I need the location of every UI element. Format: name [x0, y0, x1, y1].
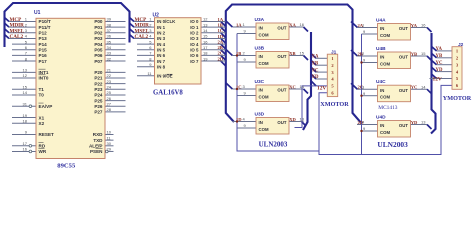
svg-text:COM: COM	[380, 130, 390, 135]
svg-text:IN 2: IN 2	[157, 31, 166, 36]
svg-text:12: 12	[23, 73, 28, 78]
svg-text:IN: IN	[259, 120, 263, 125]
svg-text:33: 33	[107, 51, 112, 56]
svg-text:PSEN: PSEN	[90, 149, 103, 154]
svg-text:XC: XC	[312, 68, 319, 73]
svg-text:U3A: U3A	[255, 17, 265, 23]
svg-text:CAL2: CAL2	[10, 34, 24, 40]
svg-text:23: 23	[107, 79, 112, 84]
svg-text:P26: P26	[94, 104, 103, 109]
svg-text:P23: P23	[94, 87, 103, 92]
svg-text:IO 5: IO 5	[190, 47, 199, 52]
svg-text:COM: COM	[380, 61, 390, 66]
svg-text:13: 13	[421, 120, 426, 125]
svg-text:YD: YD	[411, 120, 418, 125]
svg-text:RESET: RESET	[39, 132, 55, 137]
svg-text:IO 6: IO 6	[190, 53, 199, 58]
svg-text:P13: P13	[39, 36, 48, 41]
svg-text:TXD: TXD	[93, 138, 103, 143]
svg-text:XD: XD	[289, 117, 296, 122]
svg-text:17: 17	[23, 141, 28, 146]
svg-text:1D: 1D	[218, 34, 224, 39]
svg-text:OUT: OUT	[277, 54, 286, 59]
svg-text:YC: YC	[436, 61, 443, 66]
svg-text:WR: WR	[39, 149, 47, 154]
svg-text:U3C: U3C	[255, 79, 265, 85]
svg-text:19: 19	[203, 56, 208, 61]
svg-text:16: 16	[300, 22, 305, 27]
svg-text:31: 31	[23, 101, 28, 106]
svg-text:1C: 1C	[218, 28, 224, 33]
svg-text:2C: 2C	[218, 51, 224, 56]
svg-text:YC: YC	[411, 85, 418, 90]
svg-text:INT1: INT1	[39, 70, 49, 75]
svg-text:YD: YD	[436, 68, 443, 73]
svg-text:IN: IN	[259, 26, 263, 31]
svg-text:1B: 1B	[236, 51, 241, 56]
svg-text:RXD: RXD	[93, 132, 103, 137]
svg-text:IO 3: IO 3	[190, 36, 199, 41]
svg-text:P04: P04	[94, 42, 103, 47]
svg-text:22: 22	[107, 73, 112, 78]
svg-text:16: 16	[421, 23, 426, 28]
svg-text:13: 13	[300, 117, 305, 122]
svg-text:18: 18	[23, 118, 28, 123]
svg-text:YB: YB	[436, 54, 443, 59]
svg-text:IN 8: IN 8	[157, 64, 166, 69]
svg-text:13: 13	[23, 68, 28, 73]
svg-text:17: 17	[203, 45, 208, 50]
svg-text:X1: X1	[39, 115, 45, 120]
svg-text:1A: 1A	[218, 17, 224, 22]
svg-text:J1: J1	[331, 50, 337, 56]
svg-text:OUT: OUT	[277, 26, 286, 31]
svg-text:38: 38	[107, 22, 112, 27]
svg-text:12: 12	[203, 17, 208, 22]
svg-text:P00: P00	[94, 19, 103, 24]
svg-text:U3B: U3B	[255, 46, 265, 52]
svg-text:OUT: OUT	[277, 120, 286, 125]
svg-text:IN 0/CLK: IN 0/CLK	[157, 19, 176, 24]
svg-text:16: 16	[203, 39, 208, 44]
svg-text:IN: IN	[259, 54, 263, 59]
svg-text:29: 29	[107, 147, 112, 152]
svg-text:IO 7: IO 7	[190, 59, 199, 64]
svg-text:28: 28	[107, 107, 112, 112]
svg-text:IN: IN	[380, 123, 384, 128]
svg-text:36: 36	[107, 34, 112, 39]
svg-text:2D: 2D	[218, 56, 224, 61]
svg-text:P05: P05	[94, 47, 103, 52]
svg-text:OUT: OUT	[399, 123, 408, 128]
svg-text:P25: P25	[94, 98, 103, 103]
svg-text:IN: IN	[380, 88, 384, 93]
svg-text:18: 18	[203, 51, 208, 56]
svg-text:U1: U1	[34, 10, 41, 16]
svg-text:P03: P03	[94, 36, 103, 41]
svg-text:15: 15	[300, 51, 305, 56]
svg-text:P01: P01	[94, 25, 103, 30]
svg-text:P10/T: P10/T	[39, 19, 51, 24]
svg-text:COM: COM	[259, 32, 269, 37]
svg-text:89C55: 89C55	[57, 162, 76, 169]
svg-text:YMOTOR: YMOTOR	[443, 95, 472, 102]
svg-text:10: 10	[107, 130, 112, 135]
svg-text:1A: 1A	[236, 22, 242, 27]
svg-text:14: 14	[23, 90, 28, 95]
svg-text:U4D: U4D	[376, 115, 386, 121]
svg-text:T1: T1	[39, 87, 45, 92]
svg-text:YA: YA	[411, 23, 418, 28]
svg-text:P07: P07	[94, 59, 103, 64]
svg-text:U2: U2	[153, 13, 160, 19]
svg-text:XMOTOR: XMOTOR	[320, 101, 349, 108]
svg-text:XB: XB	[289, 51, 295, 56]
svg-text:1B: 1B	[218, 22, 223, 27]
svg-text:24: 24	[107, 85, 112, 90]
svg-text:ALE/P: ALE/P	[89, 144, 103, 149]
svg-text:30: 30	[107, 141, 112, 146]
svg-text:INT0: INT0	[39, 76, 49, 81]
svg-text:IO 4: IO 4	[190, 42, 199, 47]
svg-text:P20: P20	[94, 70, 103, 75]
svg-text:YA: YA	[436, 47, 443, 52]
svg-text:IN 5: IN 5	[157, 47, 166, 52]
svg-text:COM: COM	[259, 127, 269, 132]
svg-text:U4B: U4B	[376, 46, 386, 52]
svg-text:37: 37	[107, 28, 112, 33]
svg-text:YB: YB	[411, 51, 417, 56]
svg-text:21: 21	[107, 68, 112, 73]
svg-text:IN: IN	[380, 55, 384, 60]
svg-text:EA/VP: EA/VP	[39, 104, 53, 109]
svg-text:13: 13	[203, 22, 208, 27]
svg-text:OUT: OUT	[399, 55, 408, 60]
svg-text:COM: COM	[259, 94, 269, 99]
svg-text:34: 34	[107, 45, 112, 50]
svg-text:IN 7: IN 7	[157, 59, 166, 64]
svg-text:15: 15	[203, 34, 208, 39]
svg-text:OUT: OUT	[277, 88, 286, 93]
svg-text:XA: XA	[312, 55, 319, 60]
svg-text:26: 26	[107, 96, 112, 101]
svg-text:14: 14	[421, 84, 426, 89]
svg-text:IN 6: IN 6	[157, 53, 166, 58]
svg-text:COM: COM	[259, 61, 269, 66]
svg-text:12V: 12V	[317, 86, 326, 92]
svg-text:P14: P14	[39, 42, 48, 47]
svg-text:P27: P27	[94, 110, 103, 115]
svg-text:32: 32	[107, 56, 112, 61]
svg-text:IN 1: IN 1	[157, 25, 166, 30]
svg-text:COM: COM	[380, 95, 390, 100]
svg-text:T0: T0	[39, 93, 45, 98]
svg-text:15: 15	[421, 51, 426, 56]
svg-text:P16: P16	[39, 53, 48, 58]
svg-text:ULN2003: ULN2003	[377, 140, 408, 149]
svg-text:P11/T: P11/T	[39, 25, 51, 30]
svg-text:1D: 1D	[236, 117, 242, 122]
svg-text:16: 16	[23, 147, 28, 152]
svg-text:XC: XC	[289, 84, 296, 89]
svg-text:GAL16V8: GAL16V8	[153, 90, 183, 97]
svg-text:X2: X2	[39, 121, 45, 126]
svg-text:MC1413: MC1413	[378, 105, 397, 111]
svg-text:IO 1: IO 1	[190, 25, 199, 30]
svg-text:IN 3: IN 3	[157, 36, 166, 41]
svg-text:19: 19	[23, 113, 28, 118]
svg-text:XB: XB	[312, 61, 319, 66]
svg-text:P22: P22	[94, 81, 103, 86]
svg-text:XA: XA	[289, 22, 296, 27]
svg-text:IO 0: IO 0	[190, 19, 199, 24]
svg-text:U4C: U4C	[376, 79, 386, 85]
svg-text:2B: 2B	[218, 45, 223, 50]
svg-text:COM: COM	[380, 33, 390, 38]
svg-text:39: 39	[107, 17, 112, 22]
svg-text:35: 35	[107, 39, 112, 44]
svg-text:U4A: U4A	[376, 18, 386, 24]
svg-text:14: 14	[203, 28, 208, 33]
svg-text:J2: J2	[458, 42, 464, 48]
svg-text:XD: XD	[312, 75, 319, 80]
svg-text:2A: 2A	[218, 39, 224, 44]
svg-text:P21: P21	[94, 76, 103, 81]
svg-text:P24: P24	[94, 93, 103, 98]
svg-text:12V: 12V	[433, 76, 442, 82]
svg-text:IN: IN	[380, 26, 384, 31]
svg-text:P02: P02	[94, 31, 103, 36]
svg-text:OUT: OUT	[399, 88, 408, 93]
svg-text:IO 2: IO 2	[190, 31, 199, 36]
svg-text:P17: P17	[39, 59, 48, 64]
svg-text:RD: RD	[39, 144, 46, 149]
svg-text:U3D: U3D	[255, 112, 265, 118]
svg-text:ULN2003: ULN2003	[259, 140, 288, 148]
svg-text:IN: IN	[259, 88, 263, 93]
svg-text:P06: P06	[94, 53, 103, 58]
svg-text:1C: 1C	[236, 84, 242, 89]
svg-text:IN 4: IN 4	[157, 42, 166, 47]
svg-text:CAL2: CAL2	[135, 34, 149, 40]
svg-text:14: 14	[300, 84, 305, 89]
svg-text:OUT: OUT	[399, 26, 408, 31]
svg-text:27: 27	[107, 101, 112, 106]
svg-text:15: 15	[23, 85, 28, 90]
svg-text:P12: P12	[39, 31, 48, 36]
svg-text:P15: P15	[39, 47, 48, 52]
svg-text:25: 25	[107, 90, 112, 95]
